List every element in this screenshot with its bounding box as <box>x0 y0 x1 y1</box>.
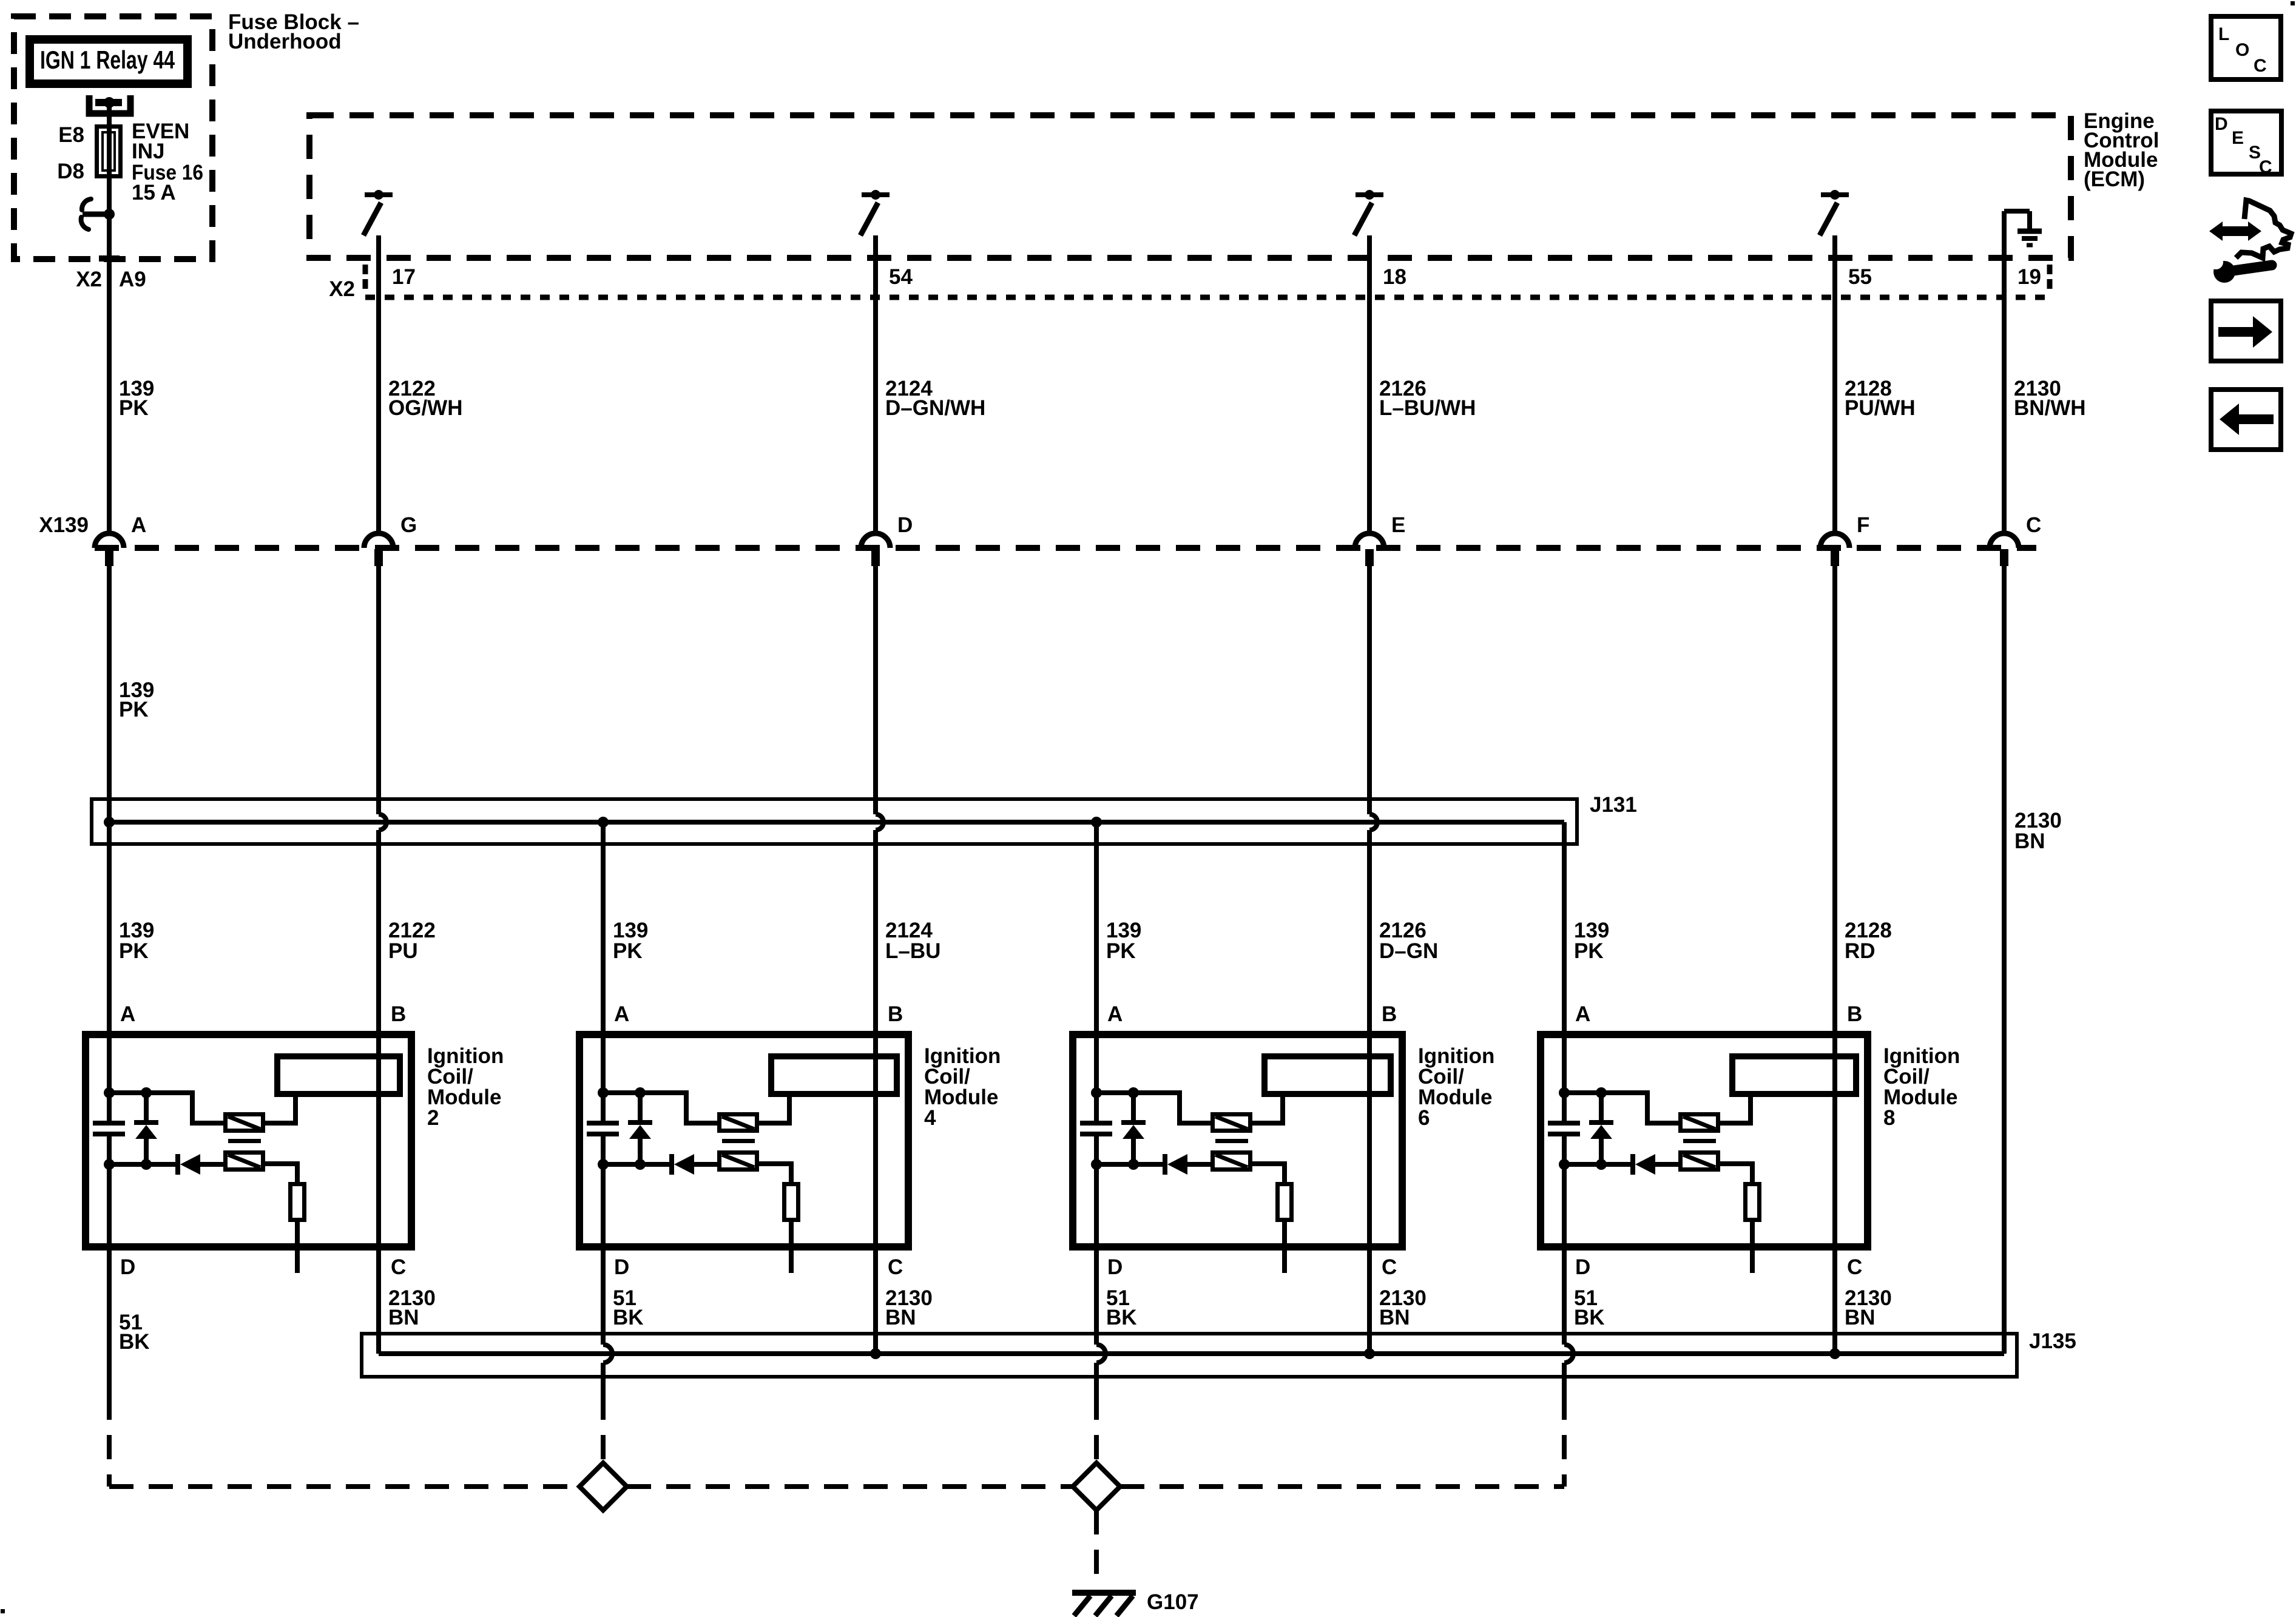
svg-text:8: 8 <box>1883 1106 1895 1130</box>
svg-text:D: D <box>120 1255 135 1279</box>
svg-text:BN: BN <box>1845 1306 1876 1329</box>
wire 51 BK module6 dashed down <box>1094 1396 1099 1463</box>
svg-text:D: D <box>1575 1255 1590 1279</box>
coil primary winding module 8 <box>1681 1115 1718 1131</box>
svg-text:(ECM): (ECM) <box>2084 167 2145 191</box>
zener diode module 6 <box>1131 1093 1136 1120</box>
coil secondary winding module 8 <box>1681 1153 1718 1170</box>
svg-text:PK: PK <box>119 698 149 721</box>
dashed wire to G107 <box>1094 1510 1099 1582</box>
wire relay to fuse E8 <box>107 103 112 127</box>
zener diode module 2 <box>144 1093 149 1120</box>
svg-text:X2: X2 <box>76 268 102 291</box>
svg-text:18: 18 <box>1383 265 1406 289</box>
splice pack J135 box <box>362 1334 2017 1377</box>
splice J131 bus line <box>109 820 1564 825</box>
svg-text:J131: J131 <box>1590 793 1637 817</box>
svg-text:2: 2 <box>427 1106 439 1130</box>
wire 51 BK module4 dashed down <box>601 1396 606 1463</box>
wire 51 BK module8 dashed down <box>1562 1396 1567 1487</box>
splice diamond S2 <box>1073 1463 1120 1510</box>
svg-text:A9: A9 <box>119 268 146 291</box>
connector X139 pin C <box>1990 533 2019 548</box>
coil secondary winding module 6 <box>1213 1153 1251 1170</box>
svg-text:C: C <box>391 1255 406 1279</box>
svg-text:J135: J135 <box>2029 1329 2076 1353</box>
module 4 control block <box>771 1056 897 1094</box>
hop 51 BK module4 over J135 <box>603 1345 612 1363</box>
coil core module 6 <box>1215 1139 1248 1143</box>
hop 51 BK module8 over J135 <box>1564 1345 1573 1363</box>
coil primary winding module 4 <box>720 1115 757 1131</box>
svg-text:PU: PU <box>388 939 418 963</box>
ignition coil module 4 box <box>579 1035 908 1247</box>
svg-text:55: 55 <box>1848 265 1872 289</box>
svg-text:B: B <box>391 1002 406 1026</box>
svg-text:BN: BN <box>388 1306 419 1329</box>
wire module6 A internal lower <box>1094 1136 1099 1345</box>
module 2 resistor stub <box>295 1222 300 1273</box>
svg-text:C: C <box>1847 1255 1862 1279</box>
hop 2122 over J131 <box>379 814 387 830</box>
diode module 6 <box>1163 1154 1167 1175</box>
svg-text:BK: BK <box>1574 1306 1605 1329</box>
wire module8 A internal lower <box>1562 1136 1567 1345</box>
wire ECM pin 19 down to X139 <box>2002 211 2007 533</box>
module 8 resistor stub <box>1750 1222 1755 1273</box>
module 6 top rail <box>1096 1093 1210 1123</box>
coil primary winding module 2 <box>226 1115 263 1131</box>
wire fuse output 139 PK down to X139 <box>107 262 112 533</box>
module 2 top rail <box>109 1093 223 1123</box>
splice diamond S1 <box>579 1463 627 1510</box>
svg-text:O: O <box>2235 40 2249 60</box>
svg-text:D: D <box>2215 114 2228 134</box>
page corner marks <box>2291 1 2295 5</box>
module 4 winding to control block wire <box>759 1097 789 1123</box>
coil secondary winding module 2 <box>226 1153 263 1170</box>
svg-text:L: L <box>2218 24 2229 44</box>
wire 2130 BN X139-C down to J135 <box>2002 566 2007 1354</box>
wire 139 PK X139-A to module2 <box>107 566 112 1121</box>
svg-text:OG/WH: OG/WH <box>388 396 462 420</box>
connector X139 pin A <box>95 533 124 548</box>
svg-text:4: 4 <box>924 1106 936 1130</box>
module 8 top rail <box>1564 1093 1678 1123</box>
ignition coil module 8 box <box>1541 1035 1868 1247</box>
ECM driver switch pin 54 <box>862 192 890 197</box>
splice pack J131 box <box>92 799 1577 844</box>
connector X139 pin F <box>1820 533 1849 548</box>
hop 51 BK module6 over J135 <box>1096 1345 1106 1363</box>
svg-text:F: F <box>1857 513 1869 537</box>
diode module 8 <box>1630 1154 1635 1175</box>
svg-text:B: B <box>1847 1002 1862 1026</box>
svg-text:C: C <box>1382 1255 1397 1279</box>
svg-text:Underhood: Underhood <box>228 30 342 53</box>
dashed ground bus wire <box>109 1484 579 1489</box>
module 6 winding to control block wire <box>1252 1097 1283 1123</box>
capacitor module 6 <box>1080 1121 1112 1126</box>
svg-text:C: C <box>888 1255 903 1279</box>
module 8 secondary to resistor wire <box>1720 1164 1752 1182</box>
svg-text:C: C <box>2259 157 2272 177</box>
module 2 secondary to resistor wire <box>265 1164 297 1182</box>
svg-text:BN: BN <box>2014 829 2045 853</box>
svg-text:C: C <box>2026 513 2041 537</box>
wire module2 A internal lower <box>107 1136 112 1396</box>
svg-text:D–GN: D–GN <box>1379 939 1438 963</box>
svg-text:6: 6 <box>1418 1106 1430 1130</box>
icon DESC box <box>2211 111 2281 174</box>
splice J131 junction dots <box>104 817 115 828</box>
relay IGN1 contact bracket <box>89 95 130 113</box>
svg-text:BK: BK <box>613 1306 644 1329</box>
ECM driver switch pin 18 <box>1356 192 1383 197</box>
module 6 secondary to resistor wire <box>1252 1164 1285 1182</box>
diode module 4 <box>669 1154 674 1175</box>
svg-text:B: B <box>1382 1002 1397 1026</box>
module 2 control block <box>277 1056 400 1094</box>
svg-text:A: A <box>1575 1002 1590 1026</box>
ECM internal ground pin 19 <box>2004 209 2030 214</box>
svg-text:A: A <box>131 513 146 537</box>
coil core module 4 <box>722 1139 755 1143</box>
module 8 winding to control block wire <box>1720 1097 1751 1123</box>
module 6 control block <box>1264 1056 1391 1094</box>
wire ECM pin 18 down to X139 <box>1367 235 1372 533</box>
svg-text:L–BU: L–BU <box>885 939 940 963</box>
wire 51 BK module2 dashed down <box>107 1396 112 1487</box>
ECM driver switch pin 17 <box>365 192 393 197</box>
svg-text:54: 54 <box>889 265 913 289</box>
svg-text:D8: D8 <box>57 160 84 183</box>
capacitor module 4 <box>587 1121 619 1126</box>
module 8 control block <box>1732 1056 1856 1094</box>
svg-text:A: A <box>614 1002 629 1026</box>
svg-text:PK: PK <box>1574 939 1604 963</box>
connector X139 pin E <box>1355 533 1384 548</box>
module 4 secondary to resistor wire <box>759 1164 791 1182</box>
wire ECM pin 54 down to X139 <box>873 235 878 533</box>
svg-text:BN/WH: BN/WH <box>2014 396 2086 420</box>
icon previous arrow box <box>2211 390 2281 450</box>
svg-text:PK: PK <box>119 396 149 420</box>
wire 2126 D-GN X139-E down <box>1367 566 1372 814</box>
connector X139 pin D <box>861 533 890 548</box>
coil secondary winding module 4 <box>720 1153 757 1170</box>
hop 2126 over J131 <box>1369 814 1377 830</box>
Engine Control Module dashed box <box>309 115 2071 258</box>
ground G107 <box>1072 1590 1136 1596</box>
svg-text:19: 19 <box>2017 265 2041 289</box>
svg-text:D: D <box>1107 1255 1123 1279</box>
connector tick X2-A9 <box>99 255 120 262</box>
svg-text:BN: BN <box>885 1306 916 1329</box>
module 2 bottom rail <box>109 1162 176 1167</box>
svg-text:RD: RD <box>1845 939 1876 963</box>
svg-text:BK: BK <box>119 1330 150 1354</box>
icon LOC box <box>2211 16 2281 79</box>
diode module 2 <box>175 1154 180 1175</box>
svg-text:IGN 1 Relay 44: IGN 1 Relay 44 <box>40 46 175 74</box>
capacitor module 2 <box>93 1121 125 1126</box>
coil primary winding module 6 <box>1213 1115 1251 1131</box>
IGN 1 Relay 44 label box <box>30 39 187 84</box>
zener diode module 8 <box>1599 1093 1604 1120</box>
wire module4 A internal lower <box>601 1136 606 1345</box>
resistor module 4 <box>785 1184 799 1220</box>
wire 139 PK to module6 <box>1094 822 1099 1121</box>
svg-text:D–GN/WH: D–GN/WH <box>885 396 985 420</box>
svg-text:C: C <box>2254 56 2267 76</box>
wire 2124 L-BU X139-D down <box>873 566 878 814</box>
zener diode module 4 <box>638 1093 643 1120</box>
svg-text:A: A <box>120 1002 135 1026</box>
module 4 top rail <box>603 1093 717 1123</box>
svg-text:A: A <box>1107 1002 1123 1026</box>
wire 2122 PU X139-G down <box>376 566 381 814</box>
module 4 bottom rail <box>603 1162 670 1167</box>
svg-text:E8: E8 <box>58 123 84 147</box>
svg-text:E: E <box>2232 128 2244 148</box>
splice J135 bus line <box>379 1351 2004 1356</box>
svg-text:INJ: INJ <box>132 140 164 163</box>
svg-text:PU/WH: PU/WH <box>1845 396 1916 420</box>
resistor module 2 <box>291 1184 305 1220</box>
connector X139 pin G <box>364 533 393 548</box>
fuse F16 EVEN INJ 15A <box>97 127 121 177</box>
svg-text:G: G <box>400 513 417 537</box>
icon next arrow box <box>2211 301 2281 361</box>
svg-text:D: D <box>897 513 913 537</box>
svg-text:B: B <box>888 1002 903 1026</box>
module 6 bottom rail <box>1096 1162 1163 1167</box>
svg-text:15 A: 15 A <box>132 181 176 204</box>
resistor module 8 <box>1746 1184 1760 1220</box>
ECM driver switch pin 55 <box>1821 192 1849 197</box>
wire 139 PK to module4 <box>601 822 606 1121</box>
module 8 bottom rail <box>1564 1162 1631 1167</box>
module 6 resistor stub <box>1282 1222 1287 1273</box>
connector X139 dashed line <box>95 545 2036 551</box>
fuse block - underhood dashed box <box>14 16 212 259</box>
svg-text:X139: X139 <box>39 513 89 537</box>
svg-text:X2: X2 <box>329 277 355 301</box>
wire ECM pin 55 down to X139 <box>1832 235 1837 533</box>
splice J135 junction dots <box>870 1348 881 1359</box>
coil core module 2 <box>228 1139 261 1143</box>
svg-text:17: 17 <box>392 265 416 289</box>
hop 2124 over J131 <box>876 814 883 830</box>
wire ECM pin 17 down to X139 <box>376 235 381 533</box>
ignition coil module 6 box <box>1073 1035 1402 1247</box>
svg-text:BK: BK <box>1106 1306 1137 1329</box>
svg-text:L–BU/WH: L–BU/WH <box>1379 396 1476 420</box>
module 2 winding to control block wire <box>265 1097 295 1123</box>
relay contact curl <box>82 199 91 210</box>
svg-text:BN: BN <box>1379 1306 1410 1329</box>
coil core module 8 <box>1683 1139 1716 1143</box>
svg-text:PK: PK <box>613 939 643 963</box>
module 4 resistor stub <box>789 1222 794 1273</box>
wire fuse to relay contact node <box>107 178 112 258</box>
ECM X2 connector dotted line <box>365 295 2050 300</box>
svg-text:PK: PK <box>119 939 149 963</box>
svg-text:D: D <box>614 1255 629 1279</box>
capacitor module 8 <box>1548 1121 1580 1126</box>
resistor module 6 <box>1278 1184 1292 1220</box>
svg-text:E: E <box>1391 513 1405 537</box>
icon adjust wrench <box>2220 226 2250 236</box>
ignition coil module 2 box <box>86 1035 411 1247</box>
wire 2128 RD X139-F down <box>1832 566 1837 1354</box>
svg-text:PK: PK <box>1106 939 1136 963</box>
svg-text:G107: G107 <box>1147 1590 1199 1614</box>
